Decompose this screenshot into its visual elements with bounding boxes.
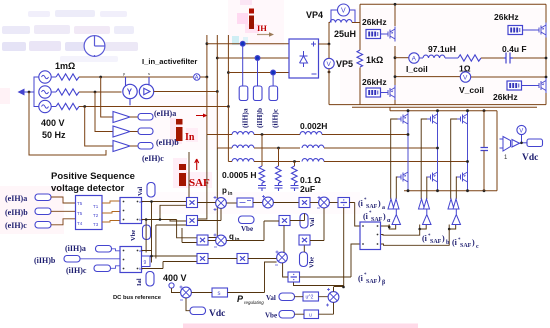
multiplier X1 (187, 198, 198, 208)
RC damp branch a (258, 133, 266, 191)
wire L2a to leg1 (322, 134, 408, 136)
svg-text:(iIH)c: (iIH)c (66, 266, 87, 275)
hysteresis relay 3 (452, 209, 461, 225)
pulse gen 2 (366, 88, 381, 97)
svg-text:1kΩ: 1kΩ (366, 55, 383, 65)
svg-text:26kHz: 26kHz (362, 17, 387, 27)
svg-text:q: q (229, 232, 234, 241)
VP5 wires (328, 44, 330, 105)
riser phase B (216, 35, 218, 92)
wire L2b to leg2 (324, 147, 438, 149)
svg-text:V: V (327, 61, 332, 68)
goto Vbe tag (143, 225, 151, 240)
svg-text:50 Hz: 50 Hz (42, 130, 66, 140)
transfer fcn block (237, 198, 253, 207)
svg-text:p: p (123, 71, 126, 76)
ammeter A phase A (194, 74, 207, 81)
abc to alphabeta block 1 (120, 198, 143, 224)
mosfet Q2 (385, 85, 396, 100)
multiplier X3 (197, 235, 208, 245)
comparator pair 1 (388, 199, 399, 209)
multiplier X4 (197, 254, 208, 264)
goto Val tag top (147, 183, 155, 198)
wire phase B row (79, 91, 122, 93)
svg-text:25uH: 25uH (334, 29, 356, 39)
inductor 97.1uH (423, 55, 445, 58)
port eIHb (35, 208, 51, 215)
bus riser 1kOhm (359, 4, 361, 104)
svg-text:SAF: SAF (430, 239, 442, 245)
svg-text:VP4: VP4 (306, 10, 323, 20)
tap wire B to buffer2 (95, 92, 113, 132)
svg-text:u: u (309, 313, 312, 319)
svg-text:(eIH)b: (eIH)b (5, 208, 28, 217)
inverter inductor L2a 0.002H (300, 132, 322, 135)
rectifier bridge block (289, 39, 319, 78)
svg-text:u^2: u^2 (306, 295, 314, 301)
riser phase A (206, 35, 208, 77)
clock block (84, 36, 105, 57)
svg-text:T5: T5 (77, 211, 83, 216)
resistor Rb (56, 89, 79, 95)
red label i_IH (249, 9, 274, 37)
svg-text:(eIH)b: (eIH)b (156, 138, 179, 147)
mosfet Q1 (385, 27, 396, 42)
red current label i_In (176, 114, 208, 144)
multiplier X2 (187, 216, 198, 226)
right half bridge riser (545, 4, 547, 104)
svg-text:in: in (235, 237, 239, 243)
svg-text:a1: a1 (139, 200, 143, 204)
red label i_SAF (179, 164, 210, 189)
delta play symbol (144, 88, 150, 94)
wire delta to risers (154, 91, 218, 93)
svg-text:400 V: 400 V (41, 118, 65, 128)
svg-text:voltage detector: voltage detector (51, 183, 125, 194)
buffer triangle a (113, 112, 130, 123)
block2 output wires (142, 251, 164, 269)
mosfet Q3 (536, 23, 547, 38)
svg-text:Vdc: Vdc (209, 309, 225, 319)
svg-text:A: A (412, 56, 417, 63)
svg-text:VP5: VP5 (336, 59, 353, 69)
svg-text:b1: b1 (139, 267, 143, 271)
Vbe tag lower (300, 252, 308, 267)
wires X3 to S2 (208, 240, 252, 242)
wire buffers to ports (130, 117, 138, 146)
wire X6 to S4 (310, 202, 319, 204)
wire TF to S3 (253, 202, 263, 204)
division D2 (288, 272, 300, 282)
riser extensions down (206, 77, 208, 135)
mosfet Q4 (536, 78, 547, 93)
capacitor 0.4uF (504, 53, 513, 64)
svg-text:*: * (364, 198, 367, 203)
AC source Vc (39, 100, 51, 112)
svg-text:(i: (i (422, 234, 428, 243)
wires ports to block (51, 197, 75, 225)
red arrow up (195, 159, 199, 170)
wire L1 to L2 row c (254, 161, 300, 163)
svg-text:0.4u F: 0.4u F (502, 44, 527, 54)
wire riserC to L1c (228, 161, 232, 163)
svg-text:(i: (i (358, 199, 364, 208)
current sensor tap c (271, 70, 276, 75)
voltmeter VP4 (331, 4, 355, 23)
svg-text:(iIH)b: (iIH)b (255, 108, 264, 128)
svg-text:0.0005 H: 0.0005 H (222, 170, 257, 180)
svg-text:Vbe: Vbe (309, 257, 316, 268)
svg-text:a: a (382, 205, 385, 211)
inverter top rail (390, 107, 497, 190)
sum S6 (328, 292, 339, 303)
RC damp branch b (275, 147, 283, 191)
svg-text:(i: (i (452, 238, 458, 247)
svg-text:I_coil: I_coil (406, 64, 428, 74)
leg 1 (407, 111, 409, 191)
wires X1,X2 to S1 (198, 203, 238, 221)
multiplier X5 (237, 254, 248, 264)
inverter bottom rail (404, 190, 497, 192)
svg-text:in: in (228, 191, 232, 197)
svg-text:(iIH)a: (iIH)a (65, 244, 86, 253)
svg-text:V: V (463, 75, 468, 82)
filter inductor L1c (232, 159, 254, 162)
AC source Vb (39, 86, 51, 98)
svg-text:T3: T3 (93, 222, 99, 227)
Vdc from tag (190, 307, 206, 315)
RC damp branch c (291, 160, 299, 191)
sum S4 (319, 197, 330, 208)
inverter inductor L2b (302, 145, 324, 148)
resistor Ra (56, 74, 79, 80)
svg-text:I_in_activefilter: I_in_activefilter (142, 57, 197, 66)
sum S5 (277, 252, 288, 263)
division D1 (338, 198, 350, 208)
svg-text:1: 1 (504, 155, 508, 161)
control wires mid (208, 203, 360, 292)
vdc sense triangle small (512, 140, 520, 148)
positive sequence block (76, 196, 103, 230)
riser nodes (206, 42, 209, 45)
unit delay block (142, 256, 151, 267)
wire S4 to D1 (329, 202, 338, 204)
left output arrow (18, 89, 25, 96)
svg-text:P: P (237, 294, 244, 304)
wire L1 to L2 row b (254, 147, 300, 149)
leg 3 (467, 111, 469, 191)
svg-text:V: V (519, 129, 523, 135)
svg-text:Val: Val (309, 218, 316, 227)
svg-text:0.002H: 0.002H (300, 121, 327, 131)
svg-text:97.1uH: 97.1uH (428, 44, 456, 54)
3-phase VI measurement block Y (123, 84, 154, 98)
svg-text:*: * (364, 273, 367, 278)
wire transform outputs mesh (142, 202, 198, 269)
svg-text:IH: IH (257, 23, 267, 33)
I_coil branch (395, 57, 409, 59)
Val from tag row (279, 293, 295, 301)
wire rect plus to inductor (319, 23, 331, 45)
node at neutral (28, 91, 31, 94)
measure port c (269, 86, 278, 101)
dc link capacitor (481, 111, 489, 191)
svg-text:2uF: 2uF (300, 184, 315, 194)
bottom return rails (329, 104, 546, 106)
sensor drop wires (243, 46, 273, 86)
port (eIH)c (138, 143, 153, 150)
svg-text:1mΩ: 1mΩ (55, 61, 75, 71)
svg-text:Val: Val (266, 294, 276, 302)
wire riserB to L1b (217, 147, 232, 149)
gate drive wires top (391, 119, 398, 199)
comparator pair 3 (448, 199, 459, 209)
wire S3 to X6 (273, 202, 299, 204)
wire phase C row (79, 106, 228, 108)
svg-text:T4: T4 (77, 221, 83, 226)
svg-text:In: In (185, 132, 195, 143)
wire L2c to leg3 (324, 161, 468, 163)
wire inductor to bus (352, 22, 360, 24)
svg-text:(iIH)c: (iIH)c (271, 108, 280, 128)
svg-text:Vbe: Vbe (265, 312, 277, 320)
hysteresis relay 1 (392, 209, 401, 225)
svg-text:b1: b1 (139, 218, 143, 222)
svg-text:a1: a1 (139, 249, 143, 253)
resistor Rc (56, 103, 79, 109)
wire neutral down (29, 92, 106, 155)
ammeter I_coil (409, 53, 419, 63)
svg-text:T5: T5 (77, 201, 83, 206)
Vbe from tag row (279, 311, 295, 319)
svg-text:p: p (222, 186, 227, 195)
measure port a (239, 86, 248, 101)
Vbe goto tag mid (239, 216, 255, 224)
svg-text:Vbe: Vbe (130, 230, 137, 241)
wire feeder C (228, 72, 289, 74)
port (eIH)a (138, 114, 153, 121)
voltmeter V_coil (460, 72, 470, 82)
svg-text:): ) (472, 238, 475, 247)
goto tag ia (146, 272, 154, 287)
resistor coil (458, 55, 481, 61)
multiplier X6 (299, 198, 310, 208)
svg-text:): ) (383, 212, 386, 221)
filter inductor L1b (232, 145, 254, 148)
wires block to transform (102, 201, 120, 222)
svg-text:s: s (218, 291, 221, 297)
svg-text:A: A (195, 75, 199, 81)
svg-text:26kHz: 26kHz (493, 92, 518, 102)
svg-text:T1: T1 (93, 204, 99, 209)
svg-text:(eIH)c: (eIH)c (5, 221, 27, 230)
multiplier X7 (279, 216, 290, 226)
mosfet S1 top (398, 112, 409, 127)
neutral bus wire (24, 77, 39, 107)
svg-text:Y: Y (127, 88, 133, 97)
wire riserA to L1a (207, 134, 232, 136)
svg-text:c: c (476, 244, 479, 250)
sum S7 (181, 287, 192, 298)
svg-text:26kHz: 26kHz (362, 77, 387, 87)
svg-text:400 V: 400 V (163, 273, 187, 283)
current sensor tap b (255, 56, 260, 61)
svg-text:Vdc: Vdc (522, 153, 538, 163)
tap wire A to buffer1 (101, 77, 113, 117)
svg-text:(eIH)a: (eIH)a (5, 194, 27, 203)
half bridge 1 riser (394, 4, 396, 104)
AC source Va (39, 71, 51, 83)
svg-text:SAF: SAF (366, 204, 378, 210)
svg-text:SAF: SAF (366, 279, 378, 285)
filter inductor L1a 0.0005H (232, 132, 254, 135)
alphabeta to abc block (360, 222, 381, 250)
pulse gen 3 (508, 26, 523, 35)
svg-text:(i: (i (358, 274, 364, 283)
gate drive wires bottom (396, 177, 397, 199)
inverter inductor L2c (302, 159, 324, 162)
sqrt gain block (303, 292, 319, 301)
svg-text:V_coil: V_coil (459, 85, 484, 95)
port eIHa (35, 194, 51, 201)
gain s block (212, 288, 228, 297)
svg-text:Vbe: Vbe (241, 225, 253, 233)
wire L1 to L2 row a (254, 134, 300, 136)
riser phase C (227, 35, 229, 107)
mosfet S2 bottom (427, 170, 438, 185)
voltmeter Vdc (517, 125, 526, 142)
svg-text:Ial: Ial (136, 278, 143, 286)
buffer triangle b (113, 126, 130, 137)
gain block 2 (304, 310, 319, 319)
svg-text:(eIH)c: (eIH)c (142, 154, 164, 163)
resistor 1kOhm (357, 50, 363, 67)
sum polarity marks (180, 195, 331, 307)
hysteresis relay 2 (423, 209, 432, 225)
svg-text:(i: (i (363, 212, 369, 221)
V_coil row (395, 76, 460, 78)
svg-text:T2: T2 (93, 213, 99, 218)
sum S3 (263, 197, 274, 208)
Val tag near X7 (300, 214, 308, 229)
pulse gen 1 (366, 30, 381, 39)
node phase A (99, 76, 102, 79)
sum S2 (216, 235, 227, 246)
svg-text:9: 9 (144, 260, 147, 266)
abc to alphabeta block 2 (120, 247, 143, 273)
inductor 25uH (330, 20, 352, 23)
svg-text:DC bus reference: DC bus reference (113, 295, 162, 301)
svg-text:β: β (382, 280, 385, 286)
svg-text:): ) (378, 199, 381, 208)
node phase C (83, 105, 86, 108)
wire src to resistors (51, 77, 56, 107)
current sensor tap a (240, 41, 245, 46)
mosfet S1 bottom (398, 170, 409, 185)
svg-text:): ) (378, 274, 381, 283)
wire phase A row (79, 76, 193, 78)
svg-text:(iIH)b: (iIH)b (34, 256, 56, 265)
port (eIH)b (138, 128, 153, 135)
port eIHc (35, 222, 51, 229)
multiplier X8 (299, 235, 310, 245)
wires iIH ports to block2 (80, 249, 120, 268)
measure port b (253, 86, 262, 101)
svg-text:regulating: regulating (244, 300, 264, 305)
signal risers from filter (187, 135, 218, 238)
mosfet S3 top (457, 112, 468, 127)
node phase B (94, 91, 97, 94)
top dc rail (360, 3, 546, 5)
svg-text:(iIH)a: (iIH)a (241, 108, 250, 128)
hysteresis input wires (381, 225, 450, 246)
svg-text:s: s (148, 71, 150, 76)
display block (527, 139, 543, 147)
svg-text:V: V (341, 8, 346, 15)
sum S1 (216, 198, 227, 209)
svg-text:*: * (369, 211, 372, 216)
tap wire C to buffer3 (85, 107, 113, 147)
mosfet S3 bottom (457, 170, 468, 185)
wire feeder A (207, 43, 289, 45)
svg-text:26kHz: 26kHz (494, 12, 519, 22)
buffer triangle c (113, 141, 130, 152)
svg-text:Val: Val (137, 187, 144, 196)
svg-text:(eIH)a: (eIH)a (154, 109, 176, 118)
wires S7 gain (191, 262, 276, 293)
pulse gen 4 (507, 81, 522, 90)
leg 2 (437, 111, 439, 191)
vdc sense selector (500, 137, 511, 152)
rail nodes (407, 109, 410, 112)
svg-text:): ) (442, 234, 445, 243)
wire feeder B (217, 57, 289, 59)
comparator pair 2 (419, 199, 430, 209)
svg-text:SAF: SAF (460, 243, 472, 249)
voltmeter VP5 (324, 58, 334, 68)
mosfet S2 top (427, 112, 438, 127)
svg-text:Positive Sequence: Positive Sequence (51, 171, 135, 182)
measurement block stubs (126, 77, 150, 105)
svg-text:α: α (387, 218, 391, 224)
